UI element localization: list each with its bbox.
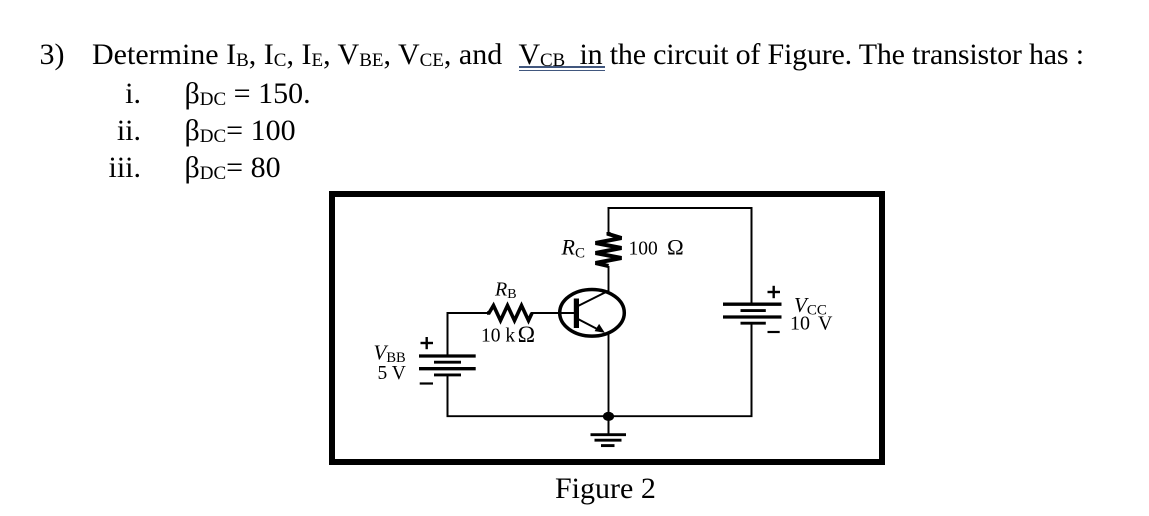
wire bottom rail	[447, 415, 753, 417]
wire Vbb bottom lead	[447, 375, 449, 417]
transistor Q1 base bar	[574, 299, 579, 329]
resistor RC zigzag	[596, 232, 622, 266]
battery VBB plate short bottom	[434, 373, 461, 376]
battery VCC plate short	[741, 309, 766, 312]
junction node dot	[603, 412, 614, 421]
svg-text:10 kΩ: 10 kΩ	[481, 322, 535, 348]
list item i	[60, 77, 141, 111]
figure caption	[555, 472, 656, 506]
svg-text:RB: RB	[494, 279, 517, 303]
battery VBB plate long top	[419, 354, 476, 357]
battery VBB plate short	[434, 361, 461, 364]
transistor Q1 collector diagonal	[577, 291, 609, 307]
wire collector bottom lead	[608, 266, 610, 292]
battery VCC plate short bottom	[741, 322, 766, 325]
wire Vcc top lead	[751, 207, 753, 304]
transistor Q1 emitter arrowhead	[595, 324, 605, 333]
wire top from collector to Vcc	[608, 207, 753, 209]
plus sign VBB	[421, 342, 434, 344]
double underline line 2	[519, 70, 606, 72]
wire emitter lead	[608, 334, 610, 417]
battery VBB plate long bottom	[419, 367, 476, 370]
wire base lead	[531, 312, 574, 314]
list item ii	[60, 114, 141, 148]
wire collector top lead	[608, 207, 610, 235]
plus sign VCC	[768, 291, 781, 293]
svg-text:100Ω: 100Ω	[629, 235, 684, 260]
transistor Q1 emitter diagonal	[577, 319, 601, 332]
wire Vcc bottom lead	[751, 323, 753, 417]
transistor Q1 body	[560, 290, 625, 337]
double underline line 1	[519, 66, 606, 68]
list item iii	[60, 151, 141, 185]
minus sign VCC	[768, 331, 780, 333]
svg-text:RC: RC	[561, 235, 585, 262]
wire Vbb top lead	[447, 312, 449, 356]
problem number	[40, 38, 65, 72]
wire ground stub	[608, 416, 610, 434]
minus sign VBB	[420, 382, 433, 384]
wire from Vbb to RB	[447, 312, 489, 314]
problem statement	[92, 38, 502, 72]
resistor RB zigzag	[487, 306, 532, 321]
svg-text:5 V: 5 V	[378, 363, 406, 384]
battery VCC plate long top	[723, 303, 782, 306]
battery VCC plate long bottom	[723, 315, 782, 318]
ground symbol	[591, 433, 627, 436]
